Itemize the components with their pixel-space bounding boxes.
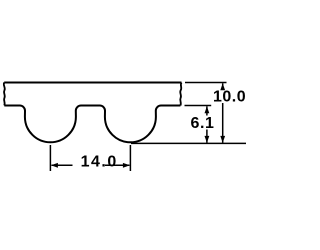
belt back top edge [4, 82, 181, 84]
extension line tooth 1 center [49, 145, 51, 171]
right break edge [180, 83, 181, 106]
dimension line 14.0 left segment [52, 164, 73, 166]
left break edge [4, 83, 5, 106]
arrowhead 6.1 bottom [205, 136, 210, 143]
belt tooth profile (underside with two teeth) [4, 106, 180, 143]
dimension line 6.1 lower segment [206, 130, 208, 143]
land extension line right [185, 105, 212, 107]
arrowhead 14.0 right [123, 163, 130, 168]
dimension line 6.1 upper segment [206, 106, 208, 115]
arrowhead 14.0 left [51, 163, 58, 168]
dimension line 14.0 right segment [105, 164, 129, 166]
svg-text:14.0: 14.0 [81, 154, 118, 171]
top extension line right [185, 82, 227, 84]
svg-text:10.0: 10.0 [213, 89, 246, 106]
extension line tooth 2 center [129, 145, 131, 171]
tooth tip extension line [131, 142, 246, 144]
arrowhead 10.0 bottom [220, 136, 225, 143]
dimension line 10.0 upper segment [222, 83, 224, 88]
arrowhead 10.0 top [220, 83, 225, 90]
dimension line 10.0 lower segment [222, 103, 224, 143]
arrowhead 6.1 top [205, 106, 210, 113]
svg-text:6.1: 6.1 [191, 115, 215, 132]
